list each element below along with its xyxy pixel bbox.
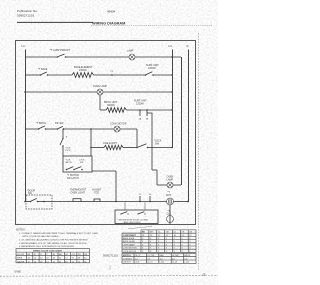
svg-text:1. CONNECT GREEN GROUND WIRE T: 1. CONNECT GREEN GROUND WIRE TO ALL TERM… <box>19 232 99 235</box>
svg-text:WIRING DIAGRAM: WIRING DIAGRAM <box>92 21 125 25</box>
svg-text:1250W: 1250W <box>136 102 144 105</box>
svg-text:2350W: 2350W <box>79 69 87 72</box>
svg-text:DR LATCH: DR LATCH <box>67 177 79 180</box>
svg-text:WITH COLOR ON GROUND WIRES.: WITH COLOR ON GROUND WIRES. <box>23 236 60 238</box>
svg-text:CLK: CLK <box>167 213 172 216</box>
svg-text:1C: 1C <box>139 194 142 196</box>
svg-text:5995271216: 5995271216 <box>17 14 34 18</box>
svg-text:1D: 1D <box>149 194 152 196</box>
svg-text:MED: MED <box>160 255 165 257</box>
svg-text:BROIL: BROIL <box>184 255 191 257</box>
svg-text:L1-N: L1-N <box>135 262 140 264</box>
svg-text:COMPONENT: COMPONENT <box>123 235 137 237</box>
svg-text:L1-N: L1-N <box>184 262 189 264</box>
svg-text:/4: /4 <box>201 272 206 277</box>
svg-text:OVEN LIGHT: OVEN LIGHT <box>71 192 86 195</box>
svg-text:LO TMP: LO TMP <box>147 255 155 257</box>
svg-text:TM: TM <box>166 232 169 234</box>
svg-text:WIRING COLOR CODE CHART: WIRING COLOR CODE CHART <box>33 250 63 253</box>
svg-text:TOD: TOD <box>94 192 99 195</box>
svg-text:CONV MOTOR: CONV MOTOR <box>110 122 127 125</box>
svg-text:L1: L1 <box>22 44 26 48</box>
svg-text:N: N <box>186 44 188 48</box>
svg-text:*T LAMP PWR-N/T: *T LAMP PWR-N/T <box>50 49 71 52</box>
svg-text:3000W: 3000W <box>107 104 115 107</box>
svg-text:2. 18-1 AWG300 LACQUERED COND: 2. 18-1 AWG300 LACQUERED CONDUCTOR FOOTN… <box>19 239 88 242</box>
svg-text:Publication No.: Publication No. <box>17 9 38 13</box>
svg-text:L1-L3: L1-L3 <box>172 262 178 264</box>
svg-text:L3: L3 <box>169 44 173 48</box>
svg-text:SWITCH: SWITCH <box>123 255 131 257</box>
svg-text:*T BAKE: *T BAKE <box>38 68 48 71</box>
svg-text:GAUGE: GAUGE <box>17 260 25 263</box>
svg-text:5995271216: 5995271216 <box>103 253 118 257</box>
svg-text:PILOT: PILOT <box>135 255 142 257</box>
svg-text:3. APPROXIMATE 3 PK OF THE SER: 3. APPROXIMATE 3 PK OF THE SERIES OF ALL… <box>19 242 87 245</box>
svg-text:CONV MOTOR: CONV MOTOR <box>123 248 137 250</box>
svg-text:LATCH: LATCH <box>65 161 72 164</box>
svg-text:GWE: GWE <box>14 269 21 273</box>
svg-text:W: W <box>34 254 36 256</box>
svg-text:L1-L3: L1-L3 <box>147 262 153 264</box>
svg-text:BAKE ELEM: BAKE ELEM <box>123 237 135 240</box>
svg-text:MOT: MOT <box>166 194 172 197</box>
svg-text:4. REFERENCE ONLY FOR SERVICE: 4. REFERENCE ONLY FOR SERVICE OF THIS MO… <box>19 246 75 248</box>
svg-text:L3-N: L3-N <box>160 262 165 264</box>
svg-text:INF SW: INF SW <box>55 122 64 125</box>
svg-text:OVEN LAMP: OVEN LAMP <box>123 243 135 246</box>
svg-text:CONTACT: CONTACT <box>123 257 133 260</box>
svg-text:SW: SW <box>80 162 83 164</box>
svg-text:COLOR: COLOR <box>17 254 25 256</box>
svg-text:*T BROIL: *T BROIL <box>36 122 47 125</box>
svg-text:HI TMP: HI TMP <box>172 255 179 257</box>
svg-text:LAMP: LAMP <box>167 179 174 182</box>
svg-text:LAMP: LAMP <box>127 50 134 53</box>
svg-text:NOTES:: NOTES: <box>16 228 26 231</box>
svg-text:BROIL ELEM: BROIL ELEM <box>123 241 135 243</box>
svg-text:WIRE: WIRE <box>17 258 23 260</box>
svg-text:LOCK MOTOR: LOCK MOTOR <box>123 251 137 253</box>
svg-text:1250W: 1250W <box>148 67 156 70</box>
svg-text:AND UNLOCKED: AND UNLOCKED <box>124 221 141 224</box>
svg-text:CIRCUIT: CIRCUIT <box>123 262 132 264</box>
svg-text:49904: 49904 <box>107 10 116 14</box>
svg-text:LOCK: LOCK <box>65 150 71 152</box>
svg-text:OVEN LAMP: OVEN LAMP <box>93 85 107 88</box>
